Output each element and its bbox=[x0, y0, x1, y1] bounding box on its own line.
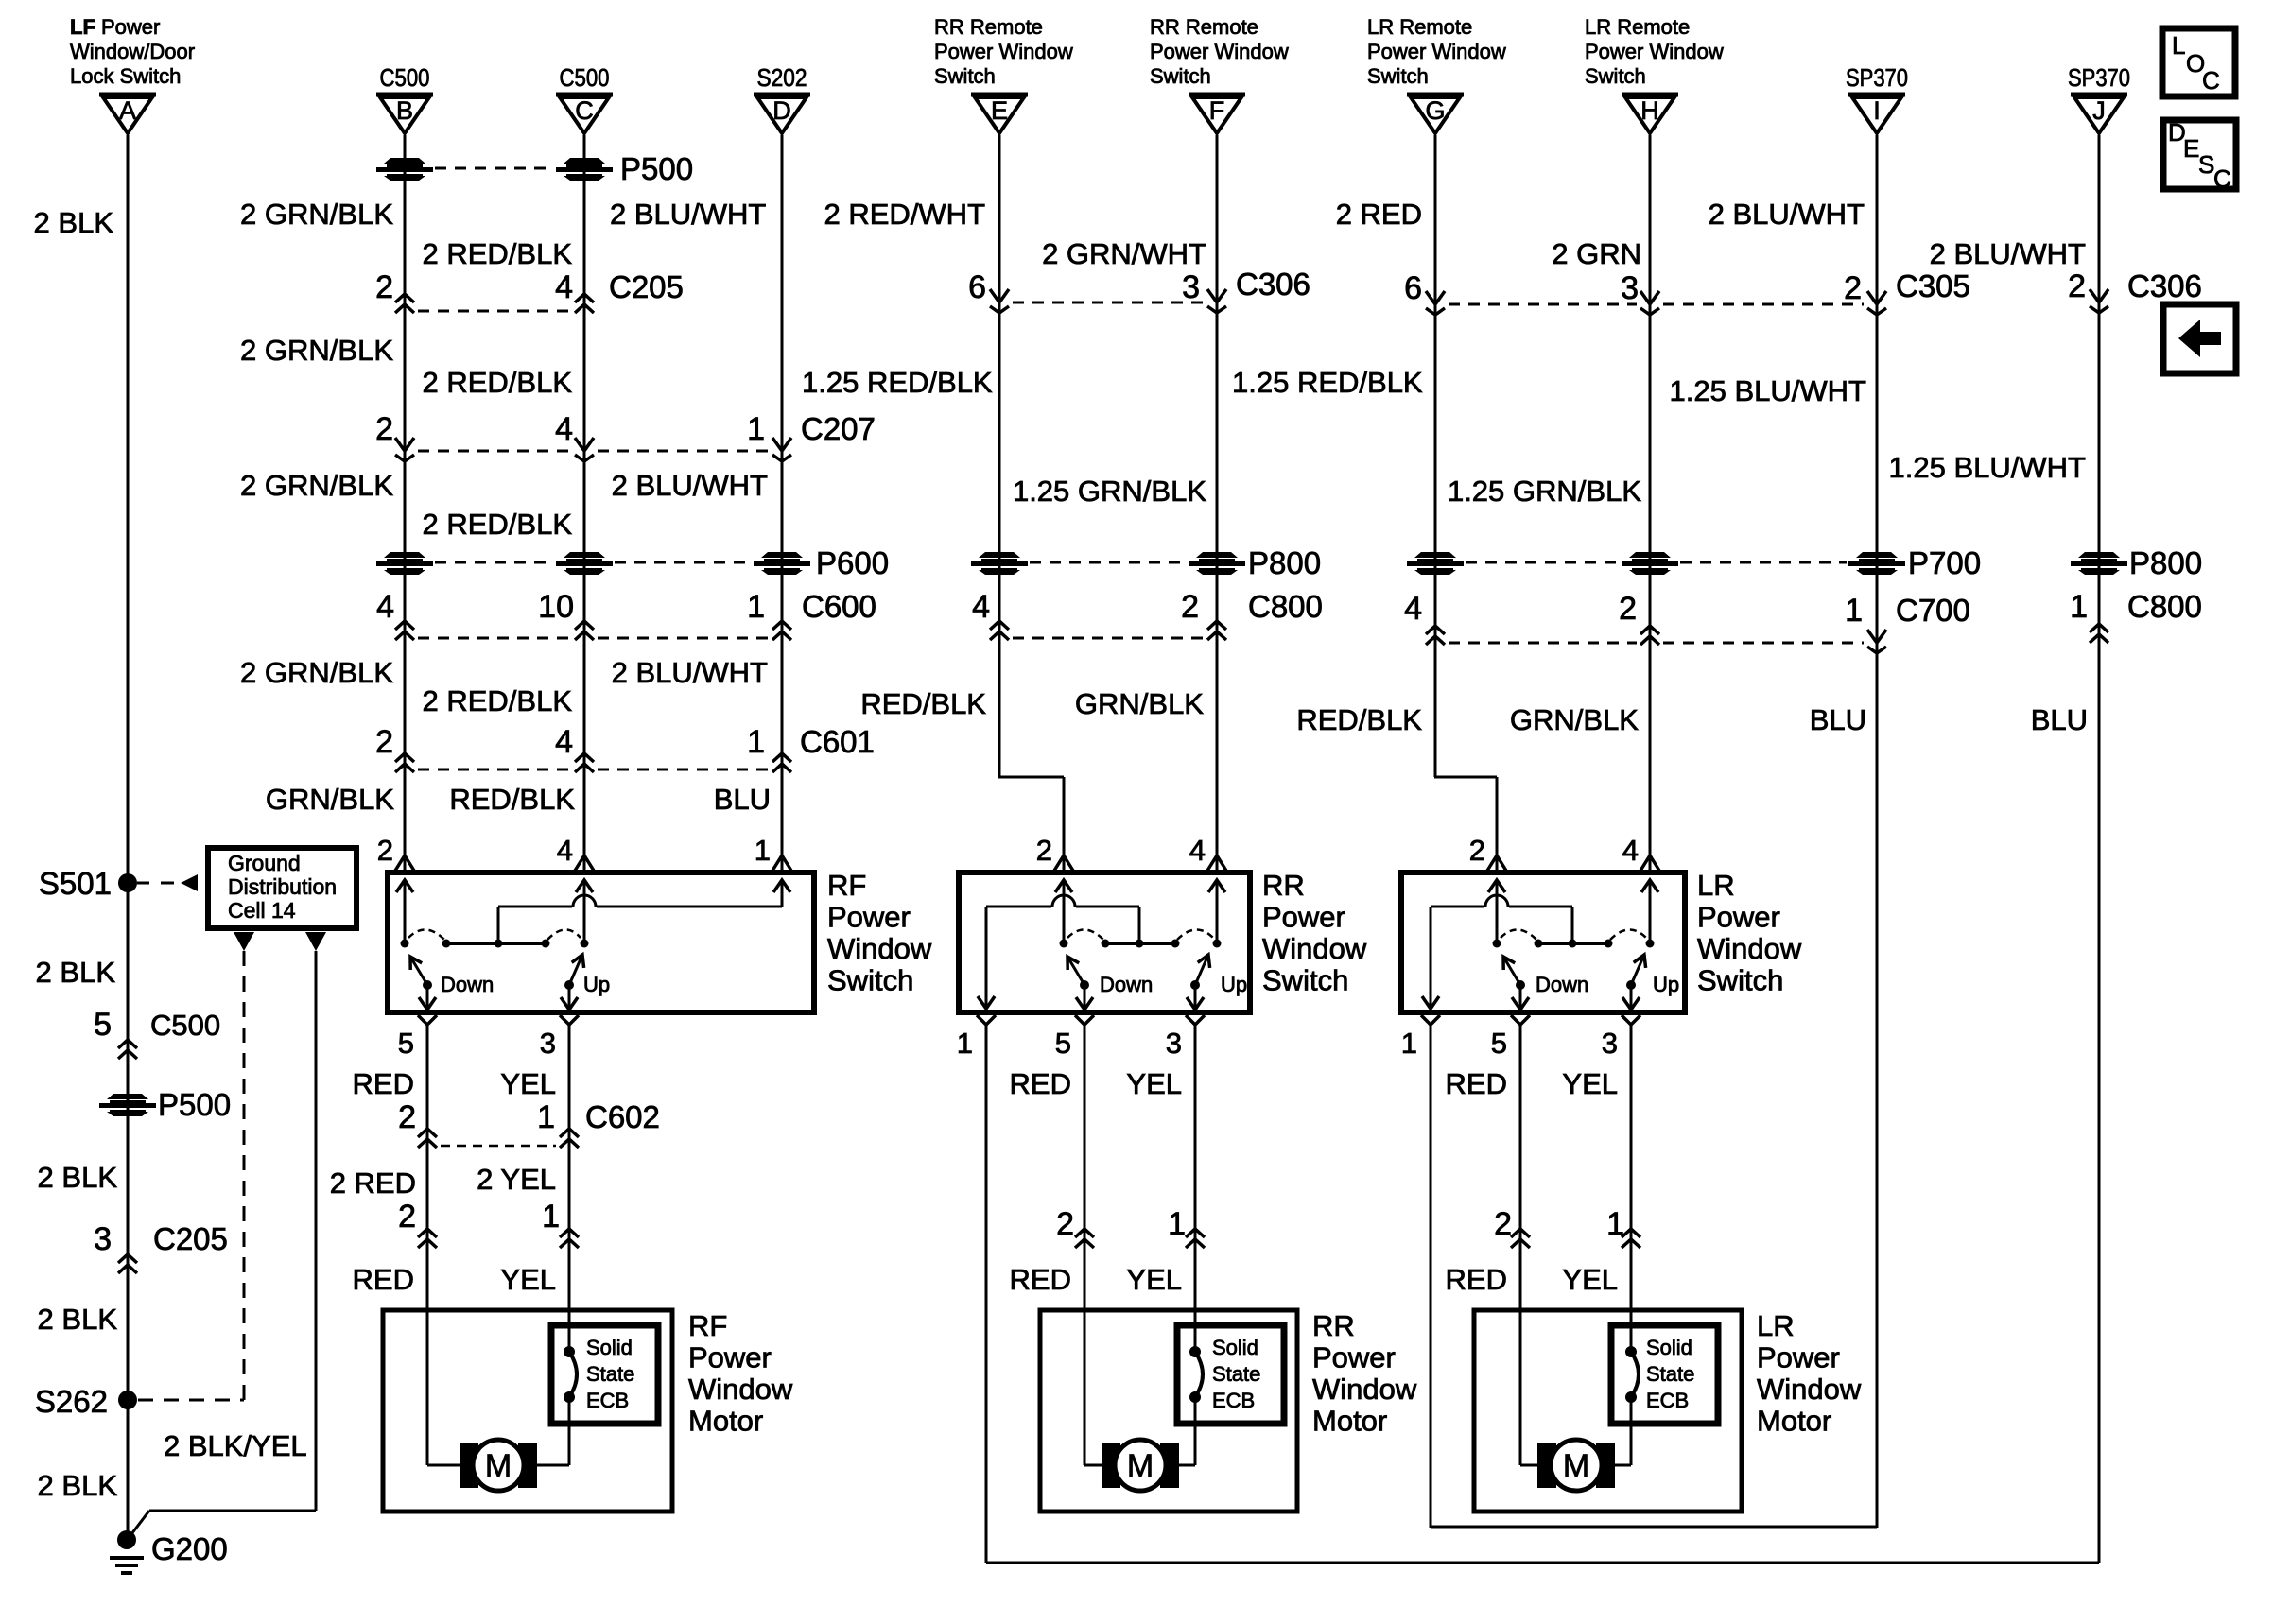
wire RR pin1 bbox=[985, 1025, 988, 1563]
label P600 bbox=[816, 545, 889, 580]
connector C306 in-line symbol (J) bbox=[2090, 289, 2108, 313]
wire I bbox=[1876, 135, 1879, 1528]
label 2 RED/BLK bbox=[422, 237, 572, 270]
svg-text:GRN/BLK: GRN/BLK bbox=[1510, 703, 1639, 736]
label 2 BLK bbox=[34, 206, 114, 239]
pin number 4 at RF pin 4 bbox=[557, 834, 573, 867]
svg-text:RF: RF bbox=[688, 1309, 727, 1342]
label C800 (J) bbox=[2127, 589, 2202, 624]
svg-text:Switch: Switch bbox=[1150, 64, 1211, 88]
svg-text:BLU: BLU bbox=[714, 783, 771, 816]
connector C306 in-line symbols (E,F) bbox=[990, 289, 1226, 313]
svg-text:H: H bbox=[1640, 96, 1659, 125]
label C500 above connector bbox=[380, 63, 430, 92]
svg-text:SP370: SP370 bbox=[1846, 63, 1908, 92]
pin 2 label at C602 bbox=[398, 1099, 416, 1135]
svg-text:Window: Window bbox=[1757, 1373, 1862, 1406]
svg-text:LR: LR bbox=[1697, 869, 1735, 902]
pin 4 label at C700 bbox=[1404, 591, 1422, 627]
svg-text:6: 6 bbox=[968, 269, 986, 305]
svg-text:3: 3 bbox=[1182, 269, 1200, 305]
label G200 bbox=[151, 1531, 228, 1566]
svg-text:C800: C800 bbox=[1248, 589, 1323, 624]
dashed connector line P600 bbox=[435, 561, 752, 564]
pin number 4 at RR pin 4 bbox=[1189, 834, 1206, 867]
connector triangle I bbox=[1848, 95, 1905, 133]
wire E with jog to RR switch pin 2 bbox=[998, 135, 1064, 871]
svg-text:6: 6 bbox=[1404, 270, 1422, 306]
label RED/BLK bbox=[860, 687, 986, 720]
svg-text:2: 2 bbox=[375, 411, 393, 447]
label BLU bbox=[2031, 703, 2088, 736]
label 2 BLU/WHT bbox=[1709, 198, 1865, 231]
svg-text:1: 1 bbox=[1845, 593, 1863, 629]
svg-text:4: 4 bbox=[1189, 834, 1206, 867]
terminal chevron LR pin 5 bbox=[1511, 1015, 1530, 1025]
svg-text:1: 1 bbox=[1168, 1206, 1186, 1242]
wire F bbox=[1216, 135, 1219, 871]
svg-text:4: 4 bbox=[376, 589, 394, 625]
pin 10 label at C600 bbox=[538, 589, 574, 625]
wire LR pin1 bbox=[1430, 1025, 1432, 1528]
switch LR Power Window Switch box bbox=[1401, 872, 1685, 1012]
terminal chevron RR pin 3 bbox=[1186, 1015, 1205, 1025]
svg-text:Switch: Switch bbox=[1367, 64, 1429, 88]
pin 1 label at C601 bbox=[747, 724, 765, 760]
connector A header text bbox=[70, 15, 195, 88]
svg-text:3: 3 bbox=[540, 1027, 556, 1060]
svg-text:5: 5 bbox=[1055, 1027, 1071, 1060]
svg-text:RR Remote: RR Remote bbox=[934, 15, 1043, 39]
label 2 GRN bbox=[1552, 237, 1641, 270]
grommet P600 at wire D bbox=[754, 552, 810, 575]
grommet P800 at wire F bbox=[1189, 552, 1245, 575]
in-line chevron above LR pin2 bbox=[1487, 855, 1506, 871]
label 2 RED bbox=[1336, 198, 1422, 231]
pin 1 label (RF lower) bbox=[542, 1199, 560, 1235]
label 2 GRN/BLK bbox=[240, 656, 393, 689]
label Up (RF) bbox=[583, 973, 610, 996]
svg-text:5: 5 bbox=[94, 1007, 112, 1043]
svg-text:Switch: Switch bbox=[1585, 64, 1646, 88]
connector triangle F bbox=[1189, 95, 1245, 133]
svg-text:2 GRN/BLK: 2 GRN/BLK bbox=[240, 469, 393, 502]
wire RR pin5 (RED) bbox=[1084, 1025, 1086, 1310]
label YEL bbox=[1126, 1263, 1182, 1296]
label C500 on wire A bbox=[150, 1009, 220, 1042]
svg-text:BLU: BLU bbox=[2031, 703, 2088, 736]
label Down (RF) bbox=[441, 973, 494, 996]
wire C bbox=[583, 135, 586, 871]
pin 2 label at C205 bbox=[375, 269, 393, 305]
svg-text:Up: Up bbox=[1653, 973, 1679, 996]
pick-off triangle to G200 (solid) bbox=[305, 932, 326, 951]
label BLU bbox=[1810, 703, 1866, 736]
label 1.25 GRN/BLK bbox=[1013, 475, 1206, 508]
svg-text:2: 2 bbox=[2068, 268, 2086, 304]
pin number 4 at LR pin 4 bbox=[1622, 834, 1639, 867]
grommet P600 at wire B bbox=[376, 552, 433, 575]
svg-text:C: C bbox=[575, 96, 594, 125]
svg-text:RR Remote: RR Remote bbox=[1150, 15, 1258, 39]
connector C600 in-line symbols bbox=[395, 621, 791, 640]
svg-text:C205: C205 bbox=[153, 1221, 228, 1256]
wire bottom joining G200 bbox=[129, 1511, 316, 1538]
svg-text:C500: C500 bbox=[560, 63, 610, 92]
connector triangle H bbox=[1622, 95, 1678, 133]
label 2 YEL bbox=[477, 1163, 556, 1196]
terminal chevron LR pin 1 bbox=[1421, 1015, 1440, 1025]
label C700 bbox=[1896, 593, 1970, 628]
label 2 BLU/WHT bbox=[612, 469, 768, 502]
svg-text:2 RED: 2 RED bbox=[330, 1166, 416, 1200]
svg-text:Window: Window bbox=[1697, 932, 1802, 965]
svg-text:1.25 RED/BLK: 1.25 RED/BLK bbox=[802, 366, 993, 399]
svg-text:Power Window: Power Window bbox=[934, 40, 1073, 63]
pin 3 label at C305 bbox=[1621, 270, 1639, 306]
svg-text:C800: C800 bbox=[2127, 589, 2202, 624]
dashed wire to S262 bbox=[243, 951, 246, 1400]
in-line chevron above LR pin4 bbox=[1640, 855, 1659, 871]
svg-text:Motor: Motor bbox=[1312, 1405, 1387, 1438]
connector triangle G bbox=[1407, 95, 1464, 133]
wire A (2 BLK) LF switch to G200 bbox=[127, 135, 130, 1540]
label 1.25 GRN/BLK bbox=[1448, 475, 1641, 508]
label RED bbox=[1010, 1067, 1071, 1100]
svg-text:YEL: YEL bbox=[1126, 1263, 1182, 1296]
pin 6 label at C305 bbox=[1404, 270, 1422, 306]
in-line chevron above RF pin1 bbox=[772, 855, 791, 871]
svg-text:RR: RR bbox=[1262, 869, 1305, 902]
ground G200 dot bbox=[117, 1530, 136, 1549]
pin 2 label (LR lower) bbox=[1494, 1206, 1512, 1242]
connector C207 in-line symbols bbox=[395, 438, 791, 461]
svg-text:2 BLU/WHT: 2 BLU/WHT bbox=[1709, 198, 1865, 231]
svg-text:Solid: Solid bbox=[1646, 1336, 1692, 1359]
in-line chevrons C205 (A) bbox=[118, 1254, 137, 1273]
label YEL bbox=[500, 1067, 556, 1100]
svg-text:M: M bbox=[1563, 1448, 1589, 1484]
pin number 2 at RF pin 2 bbox=[377, 834, 393, 867]
svg-text:3: 3 bbox=[1166, 1027, 1182, 1060]
connector triangle J bbox=[2071, 95, 2127, 133]
svg-text:Power: Power bbox=[688, 1341, 772, 1374]
svg-text:2: 2 bbox=[398, 1199, 416, 1235]
dashed connector line P800 bbox=[1030, 561, 1187, 564]
pin 4 label at C207 bbox=[555, 411, 573, 447]
svg-text:Solid: Solid bbox=[1212, 1336, 1258, 1359]
label S262 bbox=[35, 1384, 108, 1419]
label C600 bbox=[802, 589, 876, 624]
svg-text:2 BLK: 2 BLK bbox=[34, 206, 114, 239]
svg-text:State: State bbox=[1212, 1362, 1260, 1386]
pin 1 label at C700 bbox=[1845, 593, 1863, 629]
svg-text:3: 3 bbox=[94, 1221, 112, 1257]
svg-text:Solid: Solid bbox=[586, 1336, 633, 1359]
svg-text:YEL: YEL bbox=[1562, 1067, 1618, 1100]
label YEL bbox=[1562, 1067, 1618, 1100]
wire J bbox=[2098, 135, 2101, 1563]
terminal chevron RF pin 3 bbox=[560, 1015, 579, 1025]
pin 2 label (RR lower) bbox=[1056, 1206, 1074, 1242]
connector C700 in-line symbols (G,H,I) bbox=[1426, 626, 1886, 653]
svg-text:2 BLK/YEL: 2 BLK/YEL bbox=[164, 1429, 307, 1462]
svg-text:2 YEL: 2 YEL bbox=[477, 1163, 556, 1196]
label 2 BLU/WHT bbox=[610, 198, 766, 231]
svg-text:2 RED/BLK: 2 RED/BLK bbox=[422, 508, 572, 541]
connector triangle C bbox=[556, 95, 613, 133]
in-line chevrons RF lower bbox=[418, 1229, 579, 1248]
svg-text:C305: C305 bbox=[1896, 268, 1970, 303]
label 1.25 BLU/WHT bbox=[1889, 451, 2087, 484]
connector triangle D bbox=[754, 95, 810, 133]
svg-text:1.25 GRN/BLK: 1.25 GRN/BLK bbox=[1013, 475, 1206, 508]
label Down (RR) bbox=[1100, 973, 1153, 996]
ground symbol G200 bbox=[110, 1558, 144, 1573]
svg-text:ECB: ECB bbox=[586, 1389, 629, 1412]
svg-text:G200: G200 bbox=[151, 1531, 228, 1566]
label 1.25 BLU/WHT bbox=[1670, 374, 1867, 407]
svg-text:GRN/BLK: GRN/BLK bbox=[1075, 687, 1204, 720]
grommet P500 at wire B bbox=[376, 158, 433, 181]
svg-text:Window: Window bbox=[1262, 932, 1367, 965]
svg-text:10: 10 bbox=[538, 589, 574, 625]
svg-text:1.25 BLU/WHT: 1.25 BLU/WHT bbox=[1889, 451, 2087, 484]
svg-text:RED: RED bbox=[1446, 1067, 1507, 1100]
svg-text:2: 2 bbox=[1619, 591, 1637, 627]
svg-text:S: S bbox=[2198, 150, 2214, 179]
wire RF pin3 (YEL) bbox=[568, 1025, 571, 1325]
label 2 RED/WHT bbox=[824, 198, 986, 231]
pin 1 label at C207 bbox=[747, 411, 765, 447]
svg-text:RED: RED bbox=[353, 1263, 414, 1296]
svg-text:A: A bbox=[119, 96, 136, 125]
label RR Power Window Motor bbox=[1312, 1309, 1417, 1438]
pin number 1 below RR switch bbox=[957, 1027, 973, 1060]
label C306 bbox=[1236, 267, 1310, 302]
wire RF pin5 (RED) bbox=[426, 1025, 429, 1310]
svg-text:C306: C306 bbox=[1236, 267, 1310, 302]
svg-text:Power Window: Power Window bbox=[1367, 40, 1506, 63]
label C207 bbox=[801, 411, 876, 446]
grommet P700 at wire H bbox=[1622, 552, 1678, 575]
pin 3 label at C205 (A) bbox=[94, 1221, 112, 1257]
pin number 2 at RR pin 2 bbox=[1036, 834, 1052, 867]
label 2 BLK bbox=[36, 956, 116, 989]
label 2 BLK bbox=[38, 1469, 118, 1502]
terminal chevron RF pin 5 bbox=[418, 1015, 437, 1025]
connector G header text bbox=[1367, 15, 1506, 88]
svg-text:1: 1 bbox=[747, 411, 765, 447]
pin 1 label at C600 bbox=[747, 589, 765, 625]
svg-text:2: 2 bbox=[375, 269, 393, 305]
svg-text:2: 2 bbox=[1844, 270, 1862, 306]
pin 1 label (LR lower) bbox=[1606, 1206, 1624, 1242]
wire LR pin5 (RED) bbox=[1519, 1025, 1522, 1310]
in-line chevrons LR lower bbox=[1511, 1229, 1640, 1248]
svg-text:Down: Down bbox=[1536, 973, 1588, 996]
label C305 bbox=[1896, 268, 1970, 303]
svg-text:ECB: ECB bbox=[1212, 1389, 1255, 1412]
connector C602 in-line symbols bbox=[418, 1129, 579, 1148]
svg-text:B: B bbox=[396, 96, 413, 125]
label GRN/BLK bbox=[1510, 703, 1639, 736]
svg-text:2: 2 bbox=[1494, 1206, 1512, 1242]
pin 4 label at C601 bbox=[555, 724, 573, 760]
svg-text:P800: P800 bbox=[2129, 545, 2202, 580]
svg-text:RR: RR bbox=[1312, 1309, 1355, 1342]
pin 1 label at C602 bbox=[537, 1099, 555, 1135]
svg-text:2: 2 bbox=[1181, 589, 1199, 625]
label 2 RED/BLK bbox=[422, 366, 572, 399]
splice S262 junction dot bbox=[118, 1391, 137, 1409]
switch RR Power Window Switch box bbox=[959, 872, 1250, 1012]
terminal chevron RR pin 1 bbox=[977, 1015, 996, 1025]
splice S501 junction dot bbox=[118, 873, 137, 892]
svg-text:2: 2 bbox=[377, 834, 393, 867]
connector C800 in-line symbols (E,F) bbox=[990, 621, 1226, 640]
label GRN/BLK bbox=[1075, 687, 1204, 720]
svg-text:3: 3 bbox=[1602, 1027, 1618, 1060]
label YEL bbox=[1562, 1263, 1618, 1296]
svg-text:2 BLK: 2 BLK bbox=[36, 956, 116, 989]
svg-text:Up: Up bbox=[1221, 973, 1247, 996]
svg-text:GRN/BLK: GRN/BLK bbox=[266, 783, 394, 816]
pin number 5 below RF switch bbox=[398, 1027, 414, 1060]
connector triangle E bbox=[971, 95, 1028, 133]
svg-text:Power: Power bbox=[1312, 1341, 1396, 1374]
svg-text:4: 4 bbox=[557, 834, 573, 867]
grommet P500 at wire C bbox=[556, 158, 613, 181]
svg-text:2: 2 bbox=[1036, 834, 1052, 867]
label S501 bbox=[39, 866, 112, 901]
svg-text:Switch: Switch bbox=[934, 64, 996, 88]
svg-text:2 BLK: 2 BLK bbox=[38, 1469, 118, 1502]
label 2 GRN/BLK bbox=[240, 198, 393, 231]
svg-text:4: 4 bbox=[555, 269, 573, 305]
svg-text:LR: LR bbox=[1757, 1309, 1795, 1342]
svg-text:S501: S501 bbox=[39, 866, 112, 901]
svg-text:1: 1 bbox=[2070, 589, 2088, 625]
svg-text:C700: C700 bbox=[1896, 593, 1970, 628]
in-line chevron above RF pin4 bbox=[575, 855, 594, 871]
pin 2 label at C601 bbox=[375, 724, 393, 760]
svg-text:4: 4 bbox=[555, 724, 573, 760]
terminal chevron RR pin 5 bbox=[1075, 1015, 1094, 1025]
svg-text:E: E bbox=[991, 96, 1008, 125]
label P500 bbox=[620, 151, 693, 186]
label RF Power Window Switch bbox=[827, 869, 932, 997]
svg-text:2: 2 bbox=[1469, 834, 1485, 867]
grommet P800 at wire J bbox=[2071, 552, 2127, 575]
pin 1 label (RR lower) bbox=[1168, 1206, 1186, 1242]
svg-text:4: 4 bbox=[1622, 834, 1639, 867]
svg-text:2 BLK: 2 BLK bbox=[38, 1161, 118, 1194]
wire from Ground Distribution to G200 bbox=[315, 951, 318, 1511]
svg-text:Power Window: Power Window bbox=[1585, 40, 1724, 63]
svg-text:SP370: SP370 bbox=[2068, 63, 2130, 92]
svg-text:2 BLU/WHT: 2 BLU/WHT bbox=[610, 198, 766, 231]
svg-text:M: M bbox=[485, 1448, 512, 1484]
label C602 bbox=[585, 1099, 660, 1134]
label 1.25 RED/BLK bbox=[802, 366, 993, 399]
svg-text:2 GRN/BLK: 2 GRN/BLK bbox=[240, 656, 393, 689]
pin number 5 below RR switch bbox=[1055, 1027, 1071, 1060]
dashed connector line P700 bbox=[1466, 561, 1847, 564]
svg-text:2 RED: 2 RED bbox=[1336, 198, 1422, 231]
svg-text:1.25 GRN/BLK: 1.25 GRN/BLK bbox=[1448, 475, 1641, 508]
svg-text:1: 1 bbox=[957, 1027, 973, 1060]
svg-text:Distribution: Distribution bbox=[228, 874, 337, 899]
svg-text:C600: C600 bbox=[802, 589, 876, 624]
svg-text:C601: C601 bbox=[800, 724, 875, 759]
svg-text:1.25 BLU/WHT: 1.25 BLU/WHT bbox=[1670, 374, 1867, 407]
svg-text:4: 4 bbox=[972, 589, 990, 625]
pin number 3 below RR switch bbox=[1166, 1027, 1182, 1060]
pin 4 label at C205 bbox=[555, 269, 573, 305]
pin number 1 at RF pin 1 bbox=[755, 834, 771, 867]
svg-text:P800: P800 bbox=[1248, 545, 1321, 580]
svg-text:RF: RF bbox=[827, 869, 866, 902]
label SP370 above connector bbox=[2068, 63, 2130, 92]
svg-text:2 RED/BLK: 2 RED/BLK bbox=[422, 366, 572, 399]
svg-text:Switch: Switch bbox=[827, 964, 913, 997]
back-arrow legend box bbox=[2163, 304, 2236, 373]
svg-text:4: 4 bbox=[555, 411, 573, 447]
label SP370 above connector bbox=[1846, 63, 1908, 92]
label RED bbox=[1010, 1263, 1071, 1296]
svg-text:Down: Down bbox=[441, 973, 494, 996]
label RED bbox=[353, 1263, 414, 1296]
svg-text:2: 2 bbox=[398, 1099, 416, 1135]
svg-text:RED: RED bbox=[353, 1067, 414, 1100]
wire LR pin3 (YEL) bbox=[1630, 1025, 1633, 1325]
pick-off triangle to S262 (dashed) bbox=[234, 932, 254, 951]
svg-text:LR Remote: LR Remote bbox=[1585, 15, 1690, 39]
pin number 2 at LR pin 2 bbox=[1469, 834, 1485, 867]
label 2 GRN/BLK bbox=[240, 334, 393, 367]
svg-text:1: 1 bbox=[537, 1099, 555, 1135]
pin number 5 below LR switch bbox=[1491, 1027, 1507, 1060]
svg-text:J: J bbox=[2092, 96, 2106, 125]
pin 2 label at C800 bbox=[1181, 589, 1199, 625]
connector C601 in-line symbols bbox=[395, 753, 791, 772]
pin number 3 below RF switch bbox=[540, 1027, 556, 1060]
label 2 GRN/WHT bbox=[1042, 237, 1206, 270]
svg-text:Window: Window bbox=[1312, 1373, 1417, 1406]
wire LR pin1 to connector I bbox=[1431, 1526, 1877, 1529]
svg-text:Lock Switch: Lock Switch bbox=[70, 64, 181, 88]
svg-text:2: 2 bbox=[1056, 1206, 1074, 1242]
svg-text:1: 1 bbox=[1401, 1027, 1417, 1060]
svg-text:P500: P500 bbox=[158, 1087, 231, 1122]
svg-text:Down: Down bbox=[1100, 973, 1153, 996]
pin 2 label at C306 (J) bbox=[2068, 268, 2086, 304]
wire G with jog to LR switch pin 2 bbox=[1434, 135, 1497, 871]
label C601 bbox=[800, 724, 875, 759]
svg-text:2 GRN: 2 GRN bbox=[1552, 237, 1641, 270]
svg-text:C500: C500 bbox=[150, 1009, 220, 1042]
svg-text:1: 1 bbox=[755, 834, 771, 867]
pin 3 label at C306 bbox=[1182, 269, 1200, 305]
svg-text:Switch: Switch bbox=[1262, 964, 1348, 997]
pin 2 label at C207 bbox=[375, 411, 393, 447]
svg-text:Power: Power bbox=[1262, 901, 1345, 934]
label 2 RED/BLK bbox=[422, 684, 572, 717]
svg-text:2 BLU/WHT: 2 BLU/WHT bbox=[1930, 237, 2086, 270]
wire H bbox=[1649, 135, 1652, 871]
label P700 bbox=[1908, 545, 1981, 580]
